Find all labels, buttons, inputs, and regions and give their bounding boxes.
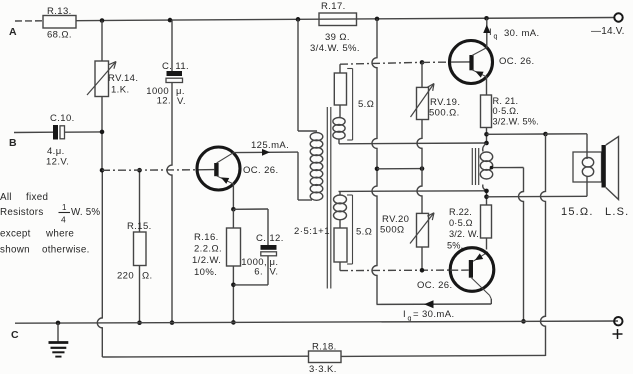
svg-text:12.V.: 12.V. [46,157,69,168]
svg-text:1/2.W.: 1/2.W. [192,255,221,266]
svg-text:All: All [0,192,12,203]
svg-text:12.: 12. [157,96,171,107]
svg-text:3/2.W. 5%.: 3/2.W. 5%. [493,117,539,127]
svg-text:2·5:1+1: 2·5:1+1 [294,226,330,237]
svg-text:C.10.: C.10. [50,113,75,124]
svg-text:RV.20: RV.20 [382,214,409,225]
svg-text:Resistors: Resistors [0,207,44,218]
svg-text:3/4.W. 5%.: 3/4.W. 5%. [310,43,360,54]
svg-text:5.Ω: 5.Ω [358,99,374,110]
svg-text:0·5.Ω.: 0·5.Ω. [493,106,519,116]
svg-text:2.2.Ω.: 2.2.Ω. [194,244,222,255]
svg-text:R.16.: R.16. [194,232,219,243]
svg-text:1.K.: 1.K. [111,85,130,96]
svg-text:except: except [0,229,31,240]
svg-text:15.Ω.: 15.Ω. [561,206,594,218]
svg-text:4: 4 [61,215,66,225]
svg-text:R. 21.: R. 21. [493,96,519,106]
svg-text:R.13.: R.13. [47,6,72,17]
svg-text:RV.14.: RV.14. [108,73,138,84]
svg-text:shown: shown [0,245,30,256]
svg-text:W. 5%: W. 5% [71,207,100,218]
svg-text:C. 12.: C. 12. [256,233,284,244]
svg-text:OC. 26.: OC. 26. [499,56,535,67]
svg-text:1: 1 [62,203,67,212]
svg-text:OC. 26.: OC. 26. [417,280,453,291]
svg-text:30. mA.: 30. mA. [504,28,540,39]
svg-text:4.μ.: 4.μ. [47,146,65,157]
svg-text:C: C [11,329,19,341]
svg-text:3·3.K.: 3·3.K. [309,364,337,374]
svg-text:220: 220 [117,271,134,282]
svg-text:10%.: 10%. [194,267,217,278]
svg-text:R.15.: R.15. [127,221,152,232]
svg-text:= 30.mA.: = 30.mA. [413,309,454,320]
svg-text:500Ω: 500Ω [380,225,405,236]
svg-text:R.22.: R.22. [449,207,472,217]
svg-text:R.18.: R.18. [312,342,337,353]
svg-text:I: I [489,27,492,38]
svg-text:I: I [403,309,406,320]
svg-text:0·5.Ω: 0·5.Ω [449,218,473,228]
svg-text:OC. 26.: OC. 26. [243,165,279,176]
svg-text:A: A [9,26,17,38]
svg-text:5.Ω: 5.Ω [356,227,372,238]
svg-text:where: where [45,229,74,240]
svg-text:B: B [9,137,17,149]
svg-text:otherwise.: otherwise. [42,245,90,256]
svg-text:6.: 6. [254,267,263,278]
svg-text:39 Ω.: 39 Ω. [325,32,350,43]
svg-text:fixed: fixed [26,192,48,203]
svg-text:68.Ω.: 68.Ω. [47,30,72,41]
svg-text:L.S.: L.S. [605,206,629,218]
svg-text:V.: V. [270,267,279,278]
svg-text:RV.19.: RV.19. [430,97,460,108]
svg-text:—14.V.: —14.V. [591,26,625,37]
svg-text:Ω.: Ω. [142,271,153,282]
svg-text:3/2. W.: 3/2. W. [449,229,479,239]
svg-text:q: q [494,34,498,41]
svg-text:125.mA.: 125.mA. [251,140,289,151]
svg-text:500.Ω.: 500.Ω. [429,108,460,119]
svg-text:R.17.: R.17. [321,1,346,12]
svg-text:C. 11.: C. 11. [162,61,189,72]
svg-text:V.: V. [177,96,186,107]
